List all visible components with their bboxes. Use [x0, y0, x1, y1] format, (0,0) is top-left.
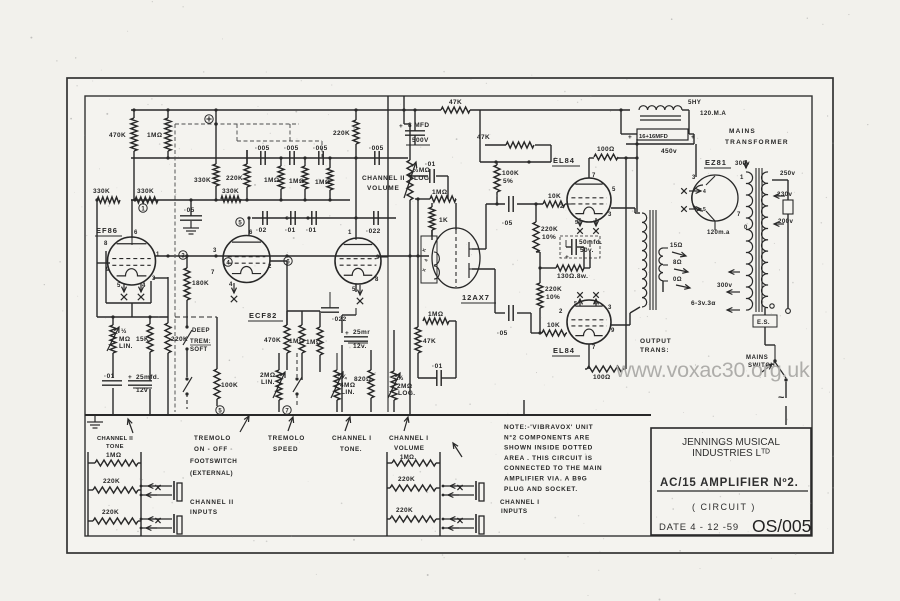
svg-text:(EXTERNAL): (EXTERNAL)	[190, 470, 233, 477]
svg-text:CHANNEL I: CHANNEL I	[389, 435, 429, 442]
svg-text:8 MFD: 8 MFD	[408, 122, 430, 129]
fuse FS1	[783, 200, 793, 214]
wire switch down	[785, 382, 787, 425]
node G	[216, 406, 224, 415]
svg-text:LOG: LOG	[414, 175, 429, 182]
svg-text:12AX7: 12AX7	[462, 293, 490, 302]
tube V4 12AX7	[421, 228, 496, 303]
svg-text:5: 5	[574, 301, 577, 307]
svg-text:470K: 470K	[264, 337, 281, 344]
svg-text:25mr: 25mr	[353, 329, 370, 336]
resistor R34 1M	[95, 452, 138, 466]
label channel I inputs	[500, 499, 540, 515]
resistor R8 180K	[184, 268, 209, 300]
svg-text:6: 6	[249, 230, 253, 236]
wire el84 cathodes	[538, 240, 590, 335]
svg-text:300v: 300v	[717, 282, 733, 289]
svg-text:12v.: 12v.	[353, 343, 367, 350]
svg-text:AC/15 AMPLIFIER Nº2.: AC/15 AMPLIFIER Nº2.	[660, 477, 799, 489]
resistor R38 220K	[390, 476, 436, 491]
resistor R27 15K	[136, 324, 153, 352]
switch S2 footswitch	[183, 377, 192, 396]
svg-text:·05: ·05	[184, 207, 195, 214]
svg-text:1MΩ: 1MΩ	[106, 452, 121, 459]
wire ht sec taps	[727, 160, 749, 313]
label channel II volume	[362, 175, 405, 192]
svg-text:220K: 220K	[102, 509, 119, 516]
capacitor C7 .01	[285, 211, 296, 234]
svg-text:4MΩ: 4MΩ	[340, 382, 355, 389]
resistor R37 1M	[392, 455, 436, 466]
jack ch2 input 2	[140, 514, 182, 534]
potentiometer VR1 half-M lin	[107, 325, 133, 353]
svg-text:220K: 220K	[171, 336, 188, 343]
wire footswitch dashed	[186, 393, 188, 409]
label watermark	[615, 358, 810, 382]
jack ch1 input 2	[442, 514, 484, 534]
wire signal bus ch2	[131, 156, 408, 159]
svg-text:TONE.: TONE.	[340, 446, 362, 453]
jack ch2 input 1	[140, 481, 182, 501]
svg-text:EL84: EL84	[553, 346, 575, 355]
svg-text:·022: ·022	[366, 228, 381, 235]
wire grid stopper	[431, 203, 433, 240]
tube V5 EL84	[552, 156, 616, 234]
wire vert x216	[215, 110, 217, 200]
arrow to ch1 volume	[404, 417, 409, 431]
svg-text:9: 9	[106, 267, 110, 273]
svg-text:1MΩ: 1MΩ	[147, 132, 162, 139]
svg-text:9: 9	[376, 255, 380, 261]
resistor R7 330K	[221, 188, 241, 202]
wire 100K chain	[175, 317, 217, 406]
resistor R24 100R	[587, 366, 623, 381]
svg-text:15K: 15K	[136, 336, 149, 343]
wire mains 230 tap	[774, 194, 785, 199]
resistor R29 100K	[214, 369, 238, 399]
svg-text:TRANSFORMER: TRANSFORMER	[725, 139, 789, 146]
svg-text:+: +	[565, 254, 569, 261]
svg-text:·005: ·005	[313, 145, 328, 152]
wire pi bottom2	[517, 313, 567, 333]
wire mains primary top	[772, 180, 788, 200]
svg-text:1: 1	[348, 230, 352, 236]
svg-text:47K: 47K	[423, 338, 436, 345]
svg-text:CHANNEL I: CHANNEL I	[332, 435, 372, 442]
wire ecf82 bottom rail	[287, 311, 320, 370]
resistor R36 220K	[93, 509, 138, 524]
svg-text:330K: 330K	[222, 188, 239, 195]
capacitor C2 .005	[284, 145, 299, 165]
wire HT rail	[131, 108, 630, 111]
node F	[284, 254, 292, 265]
wire signal bus y256	[155, 254, 429, 257]
svg-text:INDUSTRIES Lᵀᴰ: INDUSTRIES Lᵀᴰ	[692, 448, 770, 459]
potentiometer VR3 quarter-M lin	[331, 370, 355, 400]
svg-text:LIN.: LIN.	[119, 343, 133, 350]
svg-text:·01: ·01	[104, 373, 115, 380]
svg-text:( CIRCUIT ): ( CIRCUIT )	[692, 502, 756, 512]
resistor R14 47K	[477, 134, 534, 148]
svg-text:·02: ·02	[256, 227, 267, 234]
svg-text:1MΩ: 1MΩ	[264, 177, 279, 184]
wire caps row y218	[252, 216, 396, 219]
svg-text:5HY: 5HY	[688, 99, 702, 106]
svg-text:DEEP: DEEP	[192, 328, 210, 334]
switch S1 depth	[183, 325, 211, 353]
wire pot stubs	[113, 317, 168, 415]
capacitor C12 .05	[502, 196, 513, 227]
switch S3 speed	[293, 353, 302, 408]
resistor R3 330K	[93, 188, 135, 263]
choke L1 smoothing	[639, 99, 726, 120]
svg-text:1MΩ: 1MΩ	[432, 189, 447, 196]
potentiometer VR5 ch2 volume	[404, 160, 430, 200]
wire ot sec gnd	[662, 281, 664, 292]
tube V7 EZ81	[681, 158, 748, 236]
tube V3 triode	[335, 230, 388, 412]
svg-text:15Ω: 15Ω	[670, 243, 683, 249]
svg-text:330K: 330K	[194, 177, 211, 184]
svg-text:EZ81: EZ81	[705, 158, 727, 167]
svg-text:CHANNEL II: CHANNEL II	[362, 175, 405, 182]
svg-text:2: 2	[560, 204, 564, 210]
svg-text:+: +	[345, 330, 349, 337]
svg-text:VOLUME: VOLUME	[367, 185, 400, 192]
svg-text:AREA . THIS CIRCUIT IS: AREA . THIS CIRCUIT IS	[504, 455, 593, 462]
svg-text:47K: 47K	[477, 134, 490, 141]
svg-text:1K: 1K	[439, 217, 448, 224]
jack ch1 input 1	[442, 481, 484, 501]
svg-text:5: 5	[117, 283, 121, 289]
svg-text:220K: 220K	[333, 130, 350, 137]
svg-text:820Ω: 820Ω	[354, 376, 372, 383]
resistor R13 47K	[441, 99, 470, 113]
tube V6 EL84	[552, 292, 615, 356]
svg-text:·005: ·005	[284, 145, 299, 152]
arrow to ch1 tone	[345, 417, 351, 431]
ground gnd3	[276, 200, 278, 207]
svg-text:INPUTS: INPUTS	[190, 509, 218, 516]
svg-text:120.M.A: 120.M.A	[700, 110, 726, 117]
svg-text:·05: ·05	[502, 220, 513, 227]
svg-text:2MΩ: 2MΩ	[260, 372, 275, 379]
svg-text:10%: 10%	[546, 294, 560, 301]
wire separator	[85, 400, 651, 415]
svg-text:E.S.: E.S.	[757, 320, 770, 326]
svg-text:5: 5	[612, 187, 616, 193]
svg-text:1MΩ.: 1MΩ.	[400, 455, 416, 461]
svg-text:·01: ·01	[432, 363, 443, 370]
svg-text:NOTE:-'VIBRAVOX' UNIT: NOTE:-'VIBRAVOX' UNIT	[504, 424, 593, 431]
node D	[224, 258, 232, 267]
svg-text:OS/005: OS/005	[752, 516, 811, 536]
svg-text:8Ω: 8Ω	[673, 260, 682, 266]
wire ecf82 pin6	[247, 216, 250, 236]
label channel I volume	[389, 435, 429, 452]
label channel II tone	[97, 436, 133, 450]
capacitor C10 .01	[425, 161, 436, 183]
resistor R15 1M	[415, 189, 456, 202]
svg-text:120m.a: 120m.a	[707, 230, 730, 236]
wire ch1 ladder	[387, 452, 440, 536]
svg-text:4: 4	[703, 189, 706, 195]
svg-text:TONE: TONE	[106, 444, 124, 450]
wire pi top	[472, 204, 505, 249]
svg-text:INPUTS: INPUTS	[501, 508, 528, 515]
svg-text:7: 7	[211, 270, 215, 276]
svg-text:CONNECTED TO THE MAIN: CONNECTED TO THE MAIN	[504, 465, 602, 472]
svg-text:EL84: EL84	[553, 156, 575, 165]
wire ch2 vol down	[408, 200, 411, 415]
capacitor C5 8MFD	[399, 108, 430, 145]
wire vert x247	[246, 150, 248, 200]
svg-text:1MΩ: 1MΩ	[306, 339, 321, 346]
svg-text:8: 8	[375, 277, 379, 283]
wire anode load top	[416, 199, 456, 362]
wire screen bus	[589, 156, 639, 369]
resistor R16 1K	[429, 207, 448, 230]
wire ef86 cathode	[106, 251, 168, 323]
capacitor C11 .05	[180, 198, 202, 220]
capacitor C4 .005	[369, 145, 384, 165]
svg-text:230v: 230v	[777, 191, 793, 198]
resistor R21 220K	[537, 283, 562, 308]
label tremolo speed	[268, 435, 305, 453]
wire rect b+	[693, 134, 695, 144]
svg-text:+: +	[628, 134, 632, 141]
wire screen node	[480, 145, 551, 164]
wire pi bottom	[472, 269, 505, 313]
svg-text:www.voxac30.org.uk: www.voxac30.org.uk	[615, 358, 810, 382]
resistor R5 330K	[194, 164, 219, 186]
svg-text:5: 5	[703, 207, 706, 213]
wire ef86 pin6	[131, 200, 133, 238]
node B	[139, 204, 147, 213]
wire ax7 coupling	[418, 330, 456, 378]
svg-text:250v: 250v	[780, 170, 796, 177]
wire triode3 down	[337, 284, 356, 412]
ground gnd1	[183, 221, 199, 234]
svg-text:LIN.: LIN.	[341, 389, 355, 396]
wire vert x404	[404, 96, 410, 160]
svg-text:100Ω: 100Ω	[597, 146, 615, 153]
wire vert x281	[280, 158, 282, 200]
resistor R22 10K	[542, 322, 566, 336]
svg-text:6: 6	[134, 230, 138, 236]
resistor R2 1M	[147, 108, 171, 159]
svg-text:·01: ·01	[425, 161, 436, 168]
wire deep chain	[185, 254, 188, 377]
svg-text:8: 8	[104, 241, 108, 247]
resistor R26 47K	[415, 327, 436, 353]
wire pot rail	[97, 315, 168, 318]
capacitor C6 .02	[256, 211, 267, 234]
capacitor C14 50MFD	[560, 236, 602, 268]
svg-text:330K: 330K	[93, 188, 110, 195]
ground gnd2	[87, 415, 103, 428]
resistor R17 100K	[494, 162, 519, 206]
svg-text:JENNINGS MUSICAL: JENNINGS MUSICAL	[682, 437, 780, 448]
svg-text:1: 1	[156, 252, 160, 258]
titleblock	[651, 428, 811, 536]
wire ot primary feed	[635, 142, 638, 212]
svg-text:2: 2	[559, 309, 563, 315]
potentiometer VR2 2M lin	[260, 370, 285, 400]
svg-text:½: ½	[398, 374, 404, 382]
svg-text:1MΩ: 1MΩ	[315, 179, 330, 186]
svg-text:MΩ: MΩ	[119, 336, 130, 343]
svg-text:N°2 COMPONENTS ARE: N°2 COMPONENTS ARE	[504, 433, 590, 441]
svg-text:CHANNEL II: CHANNEL II	[97, 436, 133, 442]
svg-text:16+16MFD: 16+16MFD	[639, 134, 668, 140]
capacitor C13 .05	[497, 305, 513, 337]
capacitor C16 .01	[102, 373, 122, 385]
svg-text:+: +	[128, 374, 132, 381]
resistor R9 1M	[264, 166, 284, 189]
tube V2 ECF82	[211, 230, 283, 321]
resistor R18 10K	[543, 193, 565, 207]
capacitor C20 .01	[432, 363, 443, 386]
capacitor C1 .005	[255, 145, 270, 165]
wire grid bus y200	[131, 198, 350, 201]
svg-text:47K: 47K	[449, 99, 462, 106]
resistor R33 820R	[354, 370, 374, 398]
wire pi top2	[517, 203, 567, 205]
svg-text:·01: ·01	[306, 227, 317, 234]
svg-text:4: 4	[229, 282, 233, 288]
svg-text:6-3v.3α: 6-3v.3α	[691, 300, 716, 307]
svg-text:·005: ·005	[255, 145, 270, 152]
capacitor C17 25MFD	[344, 329, 370, 350]
wire mains fuse down	[786, 214, 791, 313]
svg-text:200v: 200v	[778, 218, 794, 225]
svg-text:TREM:: TREM:	[190, 339, 211, 345]
svg-text:¼: ¼	[341, 373, 347, 381]
wire ecf82 plate	[270, 261, 287, 325]
node A	[205, 115, 218, 126]
resistor R20 130R	[556, 265, 588, 280]
label tremolo footswitch	[190, 435, 237, 477]
svg-text:450v: 450v	[661, 148, 677, 155]
svg-text:0Ω: 0Ω	[673, 277, 682, 283]
svg-text:100K: 100K	[502, 170, 519, 177]
wire trem rc	[279, 353, 337, 412]
svg-text:10K: 10K	[548, 193, 561, 200]
svg-text:50v.: 50v.	[580, 247, 594, 254]
resistor R11 1M	[315, 168, 333, 190]
svg-text:220K: 220K	[398, 476, 415, 483]
svg-text:220K: 220K	[103, 478, 120, 485]
svg-text:3: 3	[213, 248, 217, 254]
svg-text:·005: ·005	[369, 145, 384, 152]
svg-text:2MΩ: 2MΩ	[397, 383, 412, 390]
svg-text:25mfd.: 25mfd.	[136, 374, 159, 381]
svg-text:3: 3	[692, 175, 696, 181]
arrow to ch2 tone	[127, 419, 133, 433]
resistor R12 220K	[333, 120, 359, 144]
svg-text:CHANNEL II: CHANNEL II	[190, 499, 234, 506]
svg-text:1: 1	[740, 175, 744, 181]
svg-text:1MΩ: 1MΩ	[289, 338, 304, 345]
label mains transformer	[725, 128, 789, 146]
resistor R35 220K	[93, 478, 138, 493]
capacitor C19 16+16MFD	[628, 129, 695, 155]
switch S4 mains	[746, 345, 788, 404]
svg-text:AMPLIFIER VIA. A B9G: AMPLIFIER VIA. A B9G	[504, 476, 587, 483]
capacitor C3 .005	[313, 145, 328, 165]
wire ef86 g2	[97, 263, 110, 317]
resistor R28 220K	[165, 323, 188, 353]
svg-text:·022: ·022	[332, 316, 347, 323]
svg-text:50mfd.: 50mfd.	[579, 239, 602, 246]
svg-text:·05: ·05	[497, 330, 508, 337]
svg-text:~: ~	[778, 392, 785, 404]
wire volume to grid	[408, 174, 448, 199]
wire ez81 heater	[714, 221, 716, 230]
transformer T1 output	[640, 210, 690, 354]
arrow to ch1 inputs	[453, 443, 462, 457]
wire el84b plate	[611, 307, 640, 325]
svg-text:3: 3	[608, 305, 612, 311]
resistor R6 220K	[226, 150, 250, 187]
svg-text:10%: 10%	[542, 234, 556, 241]
svg-text:3: 3	[152, 276, 156, 282]
svg-text:SOFT: SOFT	[190, 347, 208, 353]
wire ch2 ladder	[88, 452, 141, 536]
svg-text:·01: ·01	[285, 227, 296, 234]
svg-text:100K: 100K	[221, 382, 238, 389]
resistor R30 470K	[264, 325, 290, 353]
svg-text:330K: 330K	[137, 188, 154, 195]
svg-text:+: +	[691, 134, 695, 141]
resistor R39 220K	[390, 507, 436, 522]
svg-text:7: 7	[737, 212, 741, 218]
svg-text:220K: 220K	[396, 507, 413, 514]
resistor R10 1M	[289, 166, 308, 189]
wire el84a plate	[611, 208, 640, 213]
arrow to speed	[288, 417, 294, 431]
wire choke output to rectifier	[682, 110, 696, 177]
wire 12ax7 tail	[432, 230, 456, 330]
svg-text:100Ω: 100Ω	[593, 374, 611, 381]
svg-text:1MΩ: 1MΩ	[428, 311, 443, 318]
svg-text:9: 9	[611, 328, 615, 334]
svg-text:ECF82: ECF82	[249, 311, 277, 320]
svg-text:10K: 10K	[547, 322, 560, 329]
svg-text:OUTPUT: OUTPUT	[640, 338, 672, 345]
wire vert x305	[304, 158, 306, 200]
label channel II inputs	[190, 499, 234, 516]
wire vert x356	[355, 110, 357, 238]
svg-text:DATE 4 - 12 -59: DATE 4 - 12 -59	[659, 522, 739, 533]
svg-text:PLUG AND SOCKET.: PLUG AND SOCKET.	[504, 486, 578, 493]
svg-text:MAINS: MAINS	[729, 128, 756, 135]
svg-text:3: 3	[608, 212, 612, 218]
tube V1 EF86	[95, 226, 160, 300]
transformer T2 mains	[691, 161, 796, 312]
capacitor C15 25MFD	[128, 374, 159, 394]
label channel I tone	[332, 435, 372, 453]
capacitor C8 .01	[306, 211, 317, 234]
svg-text:5%: 5%	[503, 178, 513, 185]
svg-text:+: +	[399, 123, 403, 130]
svg-text:7: 7	[592, 345, 596, 351]
wire es link	[765, 304, 775, 345]
svg-text:CHANNEL I: CHANNEL I	[500, 499, 540, 506]
svg-text:ON - OFF: ON - OFF	[194, 446, 228, 453]
svg-text:220K: 220K	[545, 286, 562, 293]
